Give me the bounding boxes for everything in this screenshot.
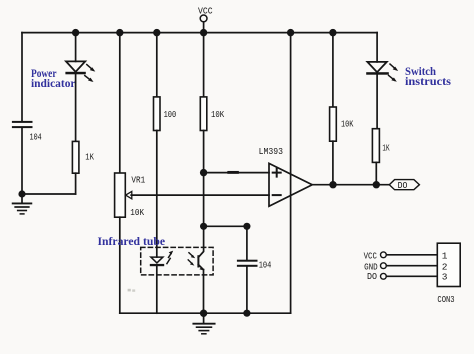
- resistor R1 1K: [72, 141, 79, 173]
- wire bus to VR1: [119, 33, 121, 173]
- wire R5 to output: [375, 162, 377, 184]
- wire left branch down to C1: [21, 33, 23, 121]
- wire op-amp output: [312, 184, 389, 186]
- wire node B into phototransistor collector: [198, 226, 203, 257]
- wire R1 to node: [75, 173, 77, 194]
- wire node B to C2: [204, 225, 247, 227]
- wire LED1 to R1: [75, 74, 77, 141]
- wire bus corner to LED2: [376, 33, 378, 62]
- resistor R4 10K: [330, 107, 337, 141]
- svg-text:VR1: VR1: [131, 175, 145, 186]
- node output R5: [373, 181, 380, 188]
- svg-text:DO: DO: [398, 181, 408, 191]
- node bus LED1: [72, 29, 79, 36]
- svg-text:10K: 10K: [130, 207, 144, 218]
- potentiometer VR1 wiper arrow: [126, 191, 132, 198]
- wire emitter to ground bus: [203, 270, 205, 314]
- svg-text:3: 3: [442, 272, 448, 283]
- wire bus to LED1: [75, 33, 77, 62]
- wire LED2 to R5: [376, 75, 378, 129]
- ground center: [193, 313, 214, 334]
- LED D1 power indicator: [65, 61, 95, 82]
- wire C1 bottom to node: [21, 128, 23, 194]
- svg-text:104: 104: [259, 260, 272, 271]
- node bus VR1: [116, 29, 123, 36]
- svg-text:LM393: LM393: [259, 146, 284, 157]
- node ground center: [200, 310, 207, 317]
- node output R4: [329, 181, 336, 188]
- potentiometer VR1 body: [115, 173, 126, 217]
- wire bus to R3: [203, 33, 205, 97]
- wire bold segment on plus wire: [229, 171, 238, 174]
- node C2 top: [243, 223, 250, 230]
- capacitor C1: [12, 121, 33, 128]
- wire VR1 bottom to ground bus: [119, 217, 121, 313]
- wire top VCC bus: [22, 32, 377, 34]
- op-amp minus symbol: [273, 194, 281, 196]
- ground left: [13, 194, 32, 214]
- wire bus to R2: [156, 33, 158, 97]
- node bus R4: [329, 29, 336, 36]
- wire R2 to IR LED: [156, 131, 158, 258]
- stray speck 1: [128, 289, 131, 292]
- svg-text:Infrared tube: Infrared tube: [98, 234, 166, 248]
- wire R3 to plus node: [203, 131, 205, 173]
- node bus R2: [153, 29, 160, 36]
- node bus riser: [287, 29, 294, 36]
- wire C2 to ground bus: [246, 267, 248, 313]
- LED D3 switch indicator: [366, 62, 398, 82]
- node B: [200, 223, 207, 230]
- node plus input: [200, 169, 207, 176]
- svg-text:VCC: VCC: [364, 250, 378, 261]
- svg-text:1: 1: [442, 250, 448, 261]
- node junction left: [18, 190, 25, 197]
- op-amp U1 LM393: [269, 163, 312, 206]
- wire bus to R4: [332, 33, 334, 107]
- svg-text:VCC: VCC: [198, 6, 213, 17]
- wire wiper to op-amp minus input: [131, 194, 269, 196]
- power port VCC circle: [200, 15, 207, 22]
- wire node to R1 bottom: [22, 193, 76, 195]
- stray speck 2: [132, 289, 135, 291]
- port flag DO: [389, 180, 419, 190]
- node C2 bottom: [243, 310, 250, 317]
- svg-text:CON3: CON3: [437, 294, 454, 305]
- wire IR LED to ground bus: [156, 266, 158, 313]
- wire plus node to op-amp: [204, 172, 269, 174]
- svg-text:1K: 1K: [382, 143, 389, 154]
- svg-text:10K: 10K: [211, 109, 224, 120]
- resistor R3 10K: [200, 97, 207, 131]
- node bus R3: [200, 29, 207, 36]
- connector CON3 body: [437, 243, 460, 286]
- svg-text:DO: DO: [367, 271, 377, 282]
- wire C2 lead down: [246, 226, 248, 259]
- wire R4 to output: [332, 141, 334, 185]
- dashed box infrared tube: [141, 247, 213, 275]
- svg-text:10K: 10K: [341, 119, 354, 130]
- wire right riser bus to ground bus: [290, 33, 292, 314]
- svg-text:instructs: instructs: [405, 74, 451, 88]
- svg-text:104: 104: [30, 132, 42, 143]
- phototransistor Q1: [188, 253, 204, 271]
- op-amp plus symbol: [273, 169, 281, 177]
- wire VCC stub: [203, 22, 205, 33]
- resistor R5 1K: [372, 129, 379, 163]
- IR emitting diode D2: [150, 251, 173, 267]
- svg-text:100: 100: [164, 109, 177, 120]
- wire ground bus bottom: [120, 312, 291, 314]
- capacitor C2: [237, 260, 258, 267]
- svg-text:indicator: indicator: [31, 76, 76, 90]
- wire plus node down to node B: [203, 173, 205, 227]
- resistor R2 100: [154, 97, 161, 131]
- svg-text:1K: 1K: [85, 152, 94, 163]
